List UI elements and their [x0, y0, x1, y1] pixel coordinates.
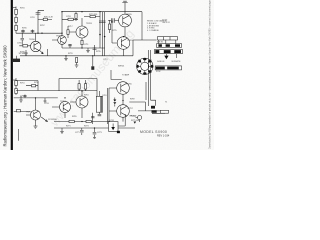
- svg-text:R765: R765: [72, 116, 77, 118]
- svg-text:TR757: TR757: [127, 108, 133, 110]
- svg-text:1/2 SX990: 1/2 SX990: [48, 119, 57, 121]
- svg-text:TR751: TR751: [26, 112, 32, 114]
- svg-text:R707: R707: [40, 25, 45, 27]
- svg-text:R779 560: R779 560: [131, 120, 139, 122]
- svg-text:TR705: TR705: [126, 14, 132, 16]
- svg-text:R721 330: R721 330: [89, 14, 97, 16]
- svg-text:C751: C751: [20, 96, 25, 98]
- svg-text:TO AMP: TO AMP: [122, 74, 130, 77]
- svg-text:C705: C705: [17, 42, 22, 44]
- svg-text:C703: C703: [66, 16, 71, 18]
- svg-text:W-WHITE: W-WHITE: [172, 61, 182, 63]
- svg-text:C753: C753: [44, 103, 49, 105]
- svg-text:R731: R731: [68, 53, 73, 55]
- svg-text:R755: R755: [34, 82, 39, 84]
- svg-text:R715 2.2K: R715 2.2K: [44, 17, 54, 19]
- svg-text:TR707: TR707: [127, 40, 133, 42]
- svg-text:C771: C771: [75, 132, 80, 134]
- svg-text:B R W: B R W: [157, 42, 163, 44]
- svg-text:TR700: TR700: [29, 39, 35, 41]
- svg-text:R717: R717: [68, 26, 73, 28]
- svg-text:Downloaded by RMorg member for: Downloaded by RMorg member for private s…: [209, 0, 212, 149]
- svg-text:B-BLUE: B-BLUE: [157, 61, 165, 63]
- svg-text:C701: C701: [30, 17, 35, 19]
- svg-text:TR701: TR701: [56, 36, 62, 38]
- svg-text:C715: C715: [103, 59, 108, 61]
- svg-text:R725: R725: [112, 30, 117, 32]
- svg-text:CAPS UF: CAPS UF: [162, 21, 171, 24]
- svg-text:R735: R735: [96, 51, 101, 53]
- svg-text:Radiomuseum.org ; Harman Kardo: Radiomuseum.org ; Harman Kardon; New Yor…: [2, 45, 7, 147]
- svg-text:C711: C711: [84, 44, 88, 46]
- svg-text:D751: D751: [110, 120, 115, 122]
- svg-text:TR753: TR753: [60, 101, 66, 103]
- svg-text:R771: R771: [66, 126, 71, 128]
- svg-text:R705: R705: [22, 28, 27, 30]
- svg-text:R751: R751: [20, 83, 25, 85]
- svg-text:PH-100: PH-100: [130, 116, 138, 118]
- svg-text:C761: C761: [102, 95, 107, 97]
- svg-text:TR703: TR703: [86, 23, 92, 25]
- svg-text:REV 1-034: REV 1-034: [157, 135, 170, 138]
- svg-text:C773: C773: [97, 132, 102, 134]
- svg-text:4. O ORANGE: 4. O ORANGE: [147, 29, 159, 32]
- svg-text:R709: R709: [20, 52, 25, 54]
- svg-text:R773: R773: [84, 126, 89, 128]
- svg-text:MODEL SX900: MODEL SX900: [140, 130, 167, 134]
- svg-text:R769: R769: [130, 99, 135, 101]
- svg-text:R701: R701: [20, 8, 25, 10]
- svg-text:SW701: SW701: [118, 66, 124, 68]
- svg-text:T1: T1: [165, 102, 167, 104]
- svg-text:R761: R761: [84, 95, 89, 97]
- svg-text:TR755: TR755: [126, 84, 132, 86]
- svg-text:P702: P702: [156, 71, 160, 73]
